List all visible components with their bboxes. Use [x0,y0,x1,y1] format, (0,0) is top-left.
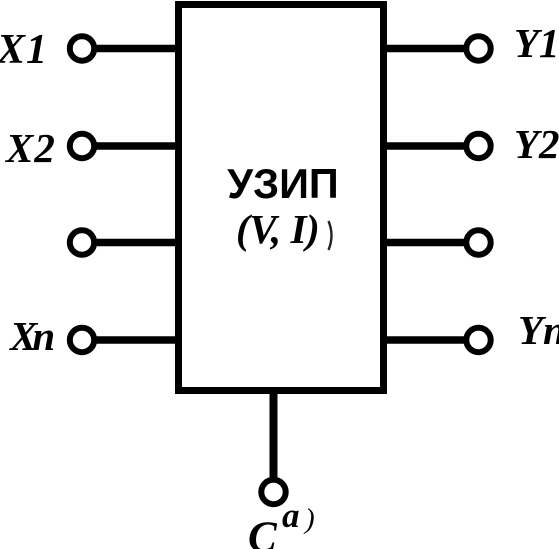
svg-text:(V, I): (V, I) [236,206,319,252]
svg-text:C: C [248,514,278,549]
svg-text:X2: X2 [4,125,56,171]
svg-text:X1: X1 [0,27,48,73]
svg-text:Yn: Yn [518,307,559,353]
svg-text:Y2: Y2 [514,121,559,167]
svg-text:a: a [282,496,300,535]
svg-text:УЗИП: УЗИП [227,160,338,207]
svg-text:Y1: Y1 [514,20,559,66]
svg-text:): ) [303,503,315,535]
svg-text:Xn: Xn [8,313,53,359]
